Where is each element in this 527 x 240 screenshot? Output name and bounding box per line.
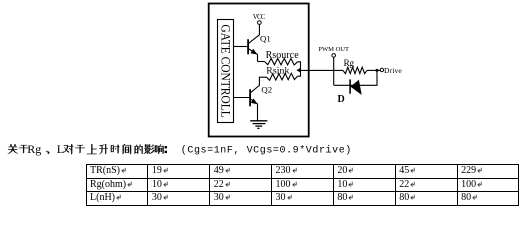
resistor Rsink zigzag [267, 73, 298, 80]
transistor Q2 emitter arrowhead [251, 99, 258, 105]
svg-text:(Cgs=1nF, VCgs=0.9*Vdrive): (Cgs=1nF, VCgs=0.9*Vdrive) [181, 145, 351, 157]
ground symbol [250, 121, 267, 129]
caption char 于 [19, 145, 29, 153]
caption char 上 [87, 144, 97, 154]
transistor Q2 base bar [249, 89, 251, 106]
caption colon [165, 146, 167, 148]
node junction arrow at resistor output [296, 68, 301, 73]
caption char 于 [75, 145, 85, 153]
wire output node to PWM junction [301, 69, 334, 71]
wire PWM OUT stub down through node to diode branch [333, 57, 335, 85]
svg-text:PWM OUT: PWM OUT [318, 46, 349, 53]
transistor Q1 emitter arrowhead [250, 49, 257, 55]
wire Q2 base from gate control [234, 97, 250, 99]
wire VCC to Q1 collector [248, 24, 259, 43]
svg-text:Q2: Q2 [261, 85, 272, 95]
caption char 关 [8, 144, 18, 153]
Drive terminal circle [380, 68, 383, 71]
svg-text:Rg: Rg [344, 59, 355, 69]
transistor Q1 emitter [248, 49, 257, 62]
transistor Q1 base bar [247, 39, 249, 54]
caption char 的 [135, 144, 143, 153]
gate control block U1 [218, 20, 234, 123]
svg-text:VCC: VCC [253, 14, 266, 21]
wire diode branch bottom [334, 70, 377, 85]
schematic outer frame box [209, 4, 309, 137]
resistor Rsource zigzag [265, 58, 298, 65]
transistor Q2 emitter [250, 99, 257, 121]
PWM OUT terminal circle [332, 54, 336, 58]
VCC terminal circle [258, 21, 262, 25]
wire Rsink lead to Q2 collector [250, 77, 266, 93]
svg-text:Rsource: Rsource [266, 50, 300, 61]
wire Q1 base from gate control [234, 46, 248, 48]
diode D cathode bar [349, 79, 351, 93]
svg-text:Drive: Drive [384, 66, 402, 75]
caption char 响 [155, 144, 164, 153]
svg-text:D: D [338, 94, 345, 105]
caption char 升 [99, 144, 108, 154]
wire Rg to Drive node [367, 69, 380, 71]
node dot at Drive junction [376, 69, 379, 72]
caption char 间 [123, 144, 131, 154]
resistor Rg zigzag [343, 67, 367, 73]
svg-text:GATE CONTROLL: GATE CONTROLL [218, 24, 233, 117]
caption char 对 [63, 144, 73, 154]
caption line [8, 142, 351, 157]
svg-text:Rsink: Rsink [266, 66, 289, 77]
caption char 影 [144, 144, 155, 153]
wire Rsource lead [258, 61, 265, 63]
wire Rsource to node [298, 62, 301, 76]
caption char 、 [46, 151, 49, 154]
data table [86, 164, 520, 206]
caption char 时 [111, 145, 120, 154]
svg-text:L: L [57, 142, 64, 156]
diode D triangle [350, 80, 361, 95]
wire PWM junction to Rg [334, 69, 343, 71]
svg-text:Rg: Rg [27, 142, 41, 156]
svg-text:Q1: Q1 [260, 34, 271, 44]
